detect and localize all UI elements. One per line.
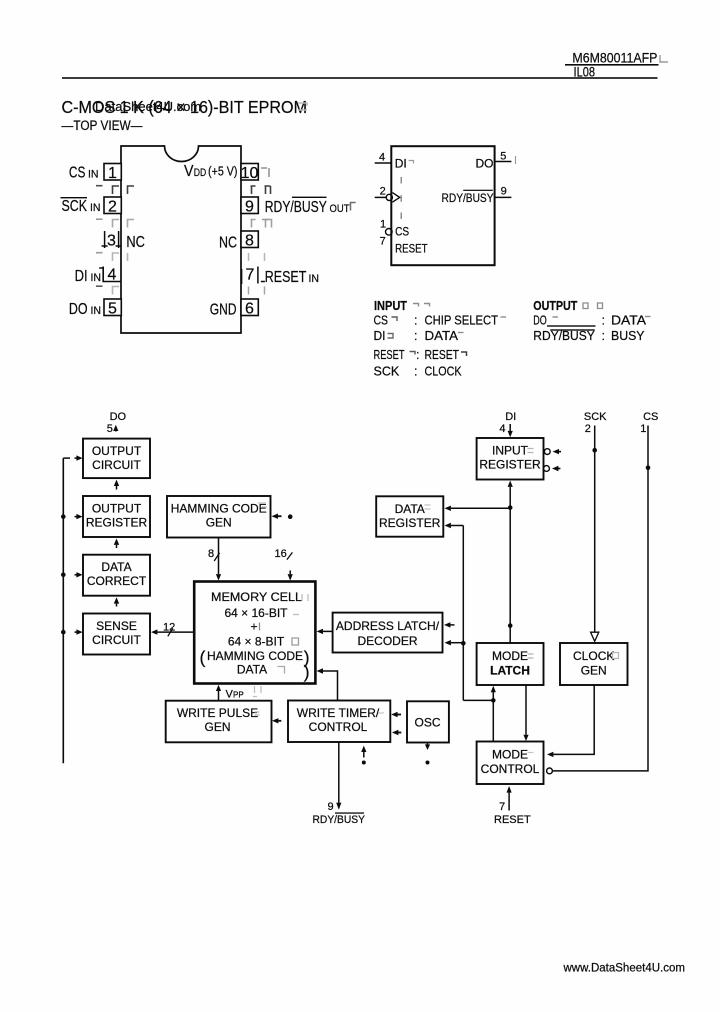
svg-text:REGISTER: REGISTER	[86, 516, 148, 530]
svg-text:SCK: SCK	[374, 365, 400, 379]
svg-text::: :	[414, 365, 417, 379]
svg-text:V: V	[184, 163, 194, 180]
svg-text:RESET: RESET	[425, 348, 460, 362]
svg-text:DO: DO	[110, 411, 127, 423]
svg-text:IN: IN	[90, 202, 101, 214]
svg-text:OUTPUT: OUTPUT	[92, 502, 142, 516]
wire MEMORY to SENSE (12)	[158, 631, 195, 633]
svg-text:OUTPUT: OUTPUT	[533, 299, 577, 313]
svg-text:INPUT: INPUT	[374, 299, 407, 313]
junction dot on vertical at ADDRESS LATCH row	[461, 641, 466, 646]
svg-text:CORRECT: CORRECT	[87, 574, 147, 588]
wire left rail	[62, 458, 64, 763]
pin 9 box	[241, 197, 258, 214]
svg-text:DECODER: DECODER	[357, 634, 417, 648]
pin 10 box	[241, 164, 258, 181]
svg-text:CS: CS	[643, 411, 658, 423]
svg-text:64 × 8-BIT: 64 × 8-BIT	[228, 635, 285, 649]
svg-text:DI: DI	[374, 329, 386, 343]
pin 9 lead	[495, 196, 512, 198]
svg-text:5: 5	[108, 301, 117, 318]
svg-text:3: 3	[107, 233, 116, 250]
svg-text:5: 5	[107, 423, 113, 435]
artifact after DI	[409, 161, 414, 164]
svg-text:GEN: GEN	[581, 664, 607, 678]
wire rail to OUTPUT CIRCUIT	[63, 457, 70, 459]
fragment clock into INPUT REGISTER upper	[544, 449, 550, 455]
svg-text:12: 12	[163, 621, 175, 633]
pin 1 bubble	[386, 229, 393, 236]
junction dot 16-bus	[288, 514, 293, 519]
svg-text:7: 7	[499, 801, 505, 813]
junction dot rail A	[61, 514, 66, 519]
fragment below WRITE TIMER	[361, 746, 366, 752]
dashed artifact inside box	[400, 177, 402, 219]
svg-text:(: (	[200, 648, 206, 668]
svg-text:CONTROL: CONTROL	[481, 762, 540, 776]
junction dot on SCK line	[592, 448, 597, 453]
artifact right of pin5	[515, 156, 517, 164]
svg-text:1: 1	[640, 423, 646, 435]
svg-text:RDY/BUSY: RDY/BUSY	[533, 329, 595, 343]
svg-text:2: 2	[380, 186, 386, 198]
fragment OSC to WRITE TIMER upper	[391, 712, 397, 717]
svg-text:RESET: RESET	[265, 269, 307, 286]
svg-text:C-MOS 1 K (64 × 16)-BIT EPROM: C-MOS 1 K (64 × 16)-BIT EPROM	[62, 97, 308, 117]
svg-text:MODE: MODE	[492, 649, 528, 663]
bubble at MODE CONTROL input	[547, 768, 553, 774]
svg-text:DI: DI	[395, 157, 407, 171]
svg-text:NC: NC	[126, 234, 144, 251]
svg-text::: :	[416, 348, 419, 362]
svg-text:5: 5	[500, 151, 506, 163]
svg-text:M6M80011AFP: M6M80011AFP	[572, 51, 657, 66]
fragment wire into WRITE PULSE GEN right	[272, 718, 278, 723]
svg-text:OUT: OUT	[330, 203, 350, 215]
wire DATA CORRECT to OUTPUT REGISTER arrow	[114, 539, 119, 545]
svg-text:LATCH: LATCH	[490, 664, 530, 678]
wire INPUT REGISTER down to MODE LATCH	[509, 487, 511, 643]
artifacts after INPUT	[413, 304, 430, 307]
svg-text:9: 9	[245, 199, 254, 216]
svg-text:IN: IN	[91, 272, 102, 284]
svg-text:RESET: RESET	[494, 814, 531, 826]
svg-text:—TOP VIEW—: —TOP VIEW—	[62, 118, 143, 133]
svg-text:NC: NC	[219, 235, 237, 252]
svg-text:CIRCUIT: CIRCUIT	[92, 458, 141, 472]
block SENSE CIRCUIT	[83, 614, 150, 655]
svg-text:DATA: DATA	[611, 314, 647, 328]
artifact after PULSE	[255, 712, 260, 715]
open arrowhead into CLOCK GEN	[591, 632, 599, 641]
svg-text:RESET: RESET	[374, 348, 405, 362]
svg-text:DO: DO	[476, 157, 494, 171]
pin 3 partial box	[102, 231, 122, 248]
pin 8 box	[241, 231, 258, 248]
svg-text:1: 1	[380, 219, 386, 231]
svg-text:CS: CS	[374, 314, 389, 328]
artifact mark after title	[298, 103, 307, 110]
pin 4 partial box	[99, 267, 121, 282]
wire OUTPUT REGISTER to OUTPUT CIRCUIT arrow	[114, 480, 119, 486]
svg-text:8: 8	[245, 233, 254, 250]
block DATA CORRECT	[83, 555, 150, 596]
junction dot on mode bus at IR line	[508, 623, 513, 628]
pin 5 box	[104, 299, 121, 316]
svg-text:CHIP SELECT: CHIP SELECT	[425, 314, 499, 328]
svg-text:DO: DO	[533, 314, 547, 328]
svg-text:SCK: SCK	[62, 198, 88, 215]
svg-text:www.DataSheet4U.com: www.DataSheet4U.com	[563, 963, 685, 975]
wire CLOCK GEN to MODE CONTROL	[553, 685, 594, 754]
svg-text:OSC: OSC	[414, 716, 440, 730]
logic symbol box U1b	[391, 146, 494, 265]
wire rail to DATA CORRECT	[75, 574, 78, 576]
svg-text:DATA: DATA	[101, 560, 131, 574]
pin 4 lead	[375, 162, 392, 164]
svg-text:8: 8	[208, 548, 214, 560]
block WRITE TIMER/CONTROL	[288, 701, 390, 743]
svg-text:): )	[304, 662, 310, 682]
svg-text:4: 4	[499, 423, 505, 435]
svg-text:OUTPUT: OUTPUT	[92, 444, 142, 458]
wire ADDRESS LATCH to MEMORY CELL	[323, 630, 333, 632]
block CLOCK GEN	[560, 643, 628, 685]
svg-text::: :	[414, 329, 417, 343]
wire VPP into MEMORY CELL	[218, 691, 220, 701]
svg-text:CIRCUIT: CIRCUIT	[92, 633, 141, 647]
junction dot IR branch	[508, 505, 513, 510]
pin 2 lead	[375, 196, 386, 198]
wire MODE LATCH to MODE CONTROL	[525, 685, 527, 735]
block ADDRESS LATCH/DECODER	[333, 613, 443, 653]
svg-text:16: 16	[275, 548, 287, 560]
svg-text:CLOCK: CLOCK	[425, 365, 463, 379]
svg-text:2: 2	[585, 423, 591, 435]
svg-text:WRITE TIMER/: WRITE TIMER/	[297, 706, 380, 720]
svg-text:IN: IN	[88, 169, 99, 181]
svg-text:BUSY: BUSY	[611, 329, 645, 343]
pin 7 partial box	[242, 267, 265, 285]
block MEMORY CELL	[194, 582, 315, 684]
svg-text::: :	[414, 314, 417, 328]
svg-text:PP: PP	[233, 690, 244, 699]
junction dot bottom elbow	[491, 698, 496, 703]
svg-text:RDY/BUSY: RDY/BUSY	[313, 814, 366, 826]
wire RESET input pin 7	[508, 793, 510, 811]
artifacts below memory box	[253, 686, 261, 697]
artifact at HCG top right	[258, 503, 267, 507]
pin 5 lead	[495, 161, 512, 163]
block OSC	[407, 701, 449, 742]
svg-text:(+5 V): (+5 V)	[208, 165, 238, 179]
full-width header rule	[62, 77, 658, 79]
wire into HCG right edge (fragment)	[272, 514, 279, 519]
wire DO output arrow	[115, 430, 117, 432]
svg-text:7: 7	[246, 267, 255, 284]
block INPUT REGISTER	[477, 438, 544, 480]
svg-text:DATA: DATA	[237, 662, 267, 676]
wire to ADDRESS LATCH lower right	[451, 642, 464, 644]
block MODE LATCH	[477, 643, 544, 685]
junction dot on CS line	[646, 465, 651, 470]
svg-text:10: 10	[241, 165, 259, 182]
svg-text:MEMORY CELL: MEMORY CELL	[211, 590, 302, 604]
svg-text:+: +	[250, 620, 257, 634]
fragment below OSC	[427, 743, 429, 745]
junction dot rail B	[61, 573, 66, 578]
artifact after MODE	[528, 654, 534, 658]
svg-text:IN: IN	[91, 305, 102, 317]
block OUTPUT CIRCUIT	[83, 439, 150, 479]
wire branch to DATA REGISTER upper	[451, 507, 510, 509]
junction dot rail C	[61, 630, 66, 635]
svg-text::: :	[602, 329, 605, 343]
pin 1 box	[104, 164, 121, 181]
wire CS vertical and elbow to MODE CONTROL	[553, 426, 648, 771]
svg-text:ADDRESS LATCH/: ADDRESS LATCH/	[336, 619, 440, 633]
svg-text:MODE: MODE	[492, 748, 528, 762]
block HAMMING CODE GEN	[167, 496, 271, 538]
wire MEMORY CELL data-in elbow from WRITE TIMER	[323, 671, 338, 701]
wire branch to DATA REGISTER lower and down	[451, 526, 464, 701]
svg-text:DO: DO	[69, 301, 88, 318]
svg-text:9: 9	[501, 186, 507, 198]
fragment OSC to WRITE TIMER lower	[392, 730, 398, 735]
wire SCK vertical	[594, 426, 596, 632]
svg-text:GND: GND	[210, 302, 237, 319]
svg-text:IN: IN	[309, 273, 320, 285]
svg-text:DI: DI	[505, 411, 516, 423]
block DATA REGISTER	[376, 496, 443, 536]
svg-text:RDY/BUSY: RDY/BUSY	[265, 199, 327, 216]
svg-text:REGISTER: REGISTER	[479, 458, 541, 472]
wire rail to OUTPUT REGISTER	[75, 516, 78, 518]
svg-text:CS: CS	[69, 165, 86, 182]
svg-text:HAMMING CODE: HAMMING CODE	[171, 502, 267, 516]
svg-text:9: 9	[328, 801, 334, 813]
wire rail to SENSE CIRCUIT	[75, 631, 78, 633]
wire HCG to MEMORY CELL (8)	[218, 538, 220, 574]
svg-text:7: 7	[380, 236, 386, 248]
scan artifacts left column	[96, 186, 134, 295]
pin 2 dynamic-input wedge	[386, 194, 392, 200]
wire bottom elbow to MODE LATCH / MODE CONTROL	[463, 692, 493, 742]
wire 16-bus arrow into MEMORY CELL (fragment)	[289, 571, 291, 575]
svg-text:RDY/BUSY: RDY/BUSY	[442, 191, 494, 205]
svg-text:HAMMING CODE: HAMMING CODE	[207, 649, 303, 663]
scan artifacts right column	[249, 168, 356, 295]
svg-text:WRITE PULSE: WRITE PULSE	[177, 706, 258, 720]
svg-text:CONTROL: CONTROL	[309, 720, 368, 734]
fragment wire to ADDRESS LATCH upper right	[444, 622, 450, 627]
fragment select into INPUT REGISTER lower	[544, 466, 550, 472]
svg-text:RESET: RESET	[395, 242, 428, 256]
svg-text:2: 2	[108, 199, 117, 216]
svg-text:DATA: DATA	[395, 502, 425, 516]
wire DI into INPUT REGISTER	[509, 424, 511, 431]
svg-text:INPUT: INPUT	[492, 444, 529, 458]
IC body U1	[121, 146, 241, 333]
artifact after MODE (control)	[528, 752, 534, 754]
svg-text:64 × 16-BIT: 64 × 16-BIT	[224, 606, 288, 620]
artifact after INPUT	[528, 449, 534, 453]
artifact mark after part number	[660, 55, 668, 62]
svg-text:CLOCK: CLOCK	[573, 649, 614, 663]
svg-text:1: 1	[108, 165, 117, 182]
block MODE CONTROL	[477, 742, 544, 785]
pin 2 box	[104, 197, 121, 214]
artifact after CLOCK	[613, 653, 619, 659]
wire SENSE CIRCUIT to DATA CORRECT arrow	[114, 597, 119, 603]
svg-text:SCK: SCK	[584, 411, 607, 423]
svg-text:DATA: DATA	[425, 329, 459, 343]
svg-text:6: 6	[245, 301, 254, 318]
svg-text:GEN: GEN	[204, 720, 230, 734]
rule under part number	[565, 64, 659, 66]
artifacts after OUTPUT	[583, 303, 603, 309]
svg-text:CS: CS	[395, 224, 409, 238]
pin 6 box	[241, 299, 258, 316]
svg-text:DI: DI	[75, 268, 88, 285]
svg-text:SENSE: SENSE	[96, 619, 137, 633]
block OUTPUT REGISTER	[83, 496, 150, 537]
artifact after TIMER/	[378, 712, 384, 714]
svg-text:GEN: GEN	[206, 516, 232, 530]
svg-text:REGISTER: REGISTER	[379, 516, 441, 530]
svg-text:4: 4	[379, 152, 385, 164]
svg-text::: :	[602, 314, 605, 328]
svg-text:DD: DD	[194, 167, 207, 179]
wire RDY/BUSY output pin 9	[338, 742, 340, 802]
svg-text:4: 4	[108, 267, 117, 284]
block WRITE PULSE GEN	[166, 701, 272, 743]
artifact after DATA	[425, 505, 431, 509]
